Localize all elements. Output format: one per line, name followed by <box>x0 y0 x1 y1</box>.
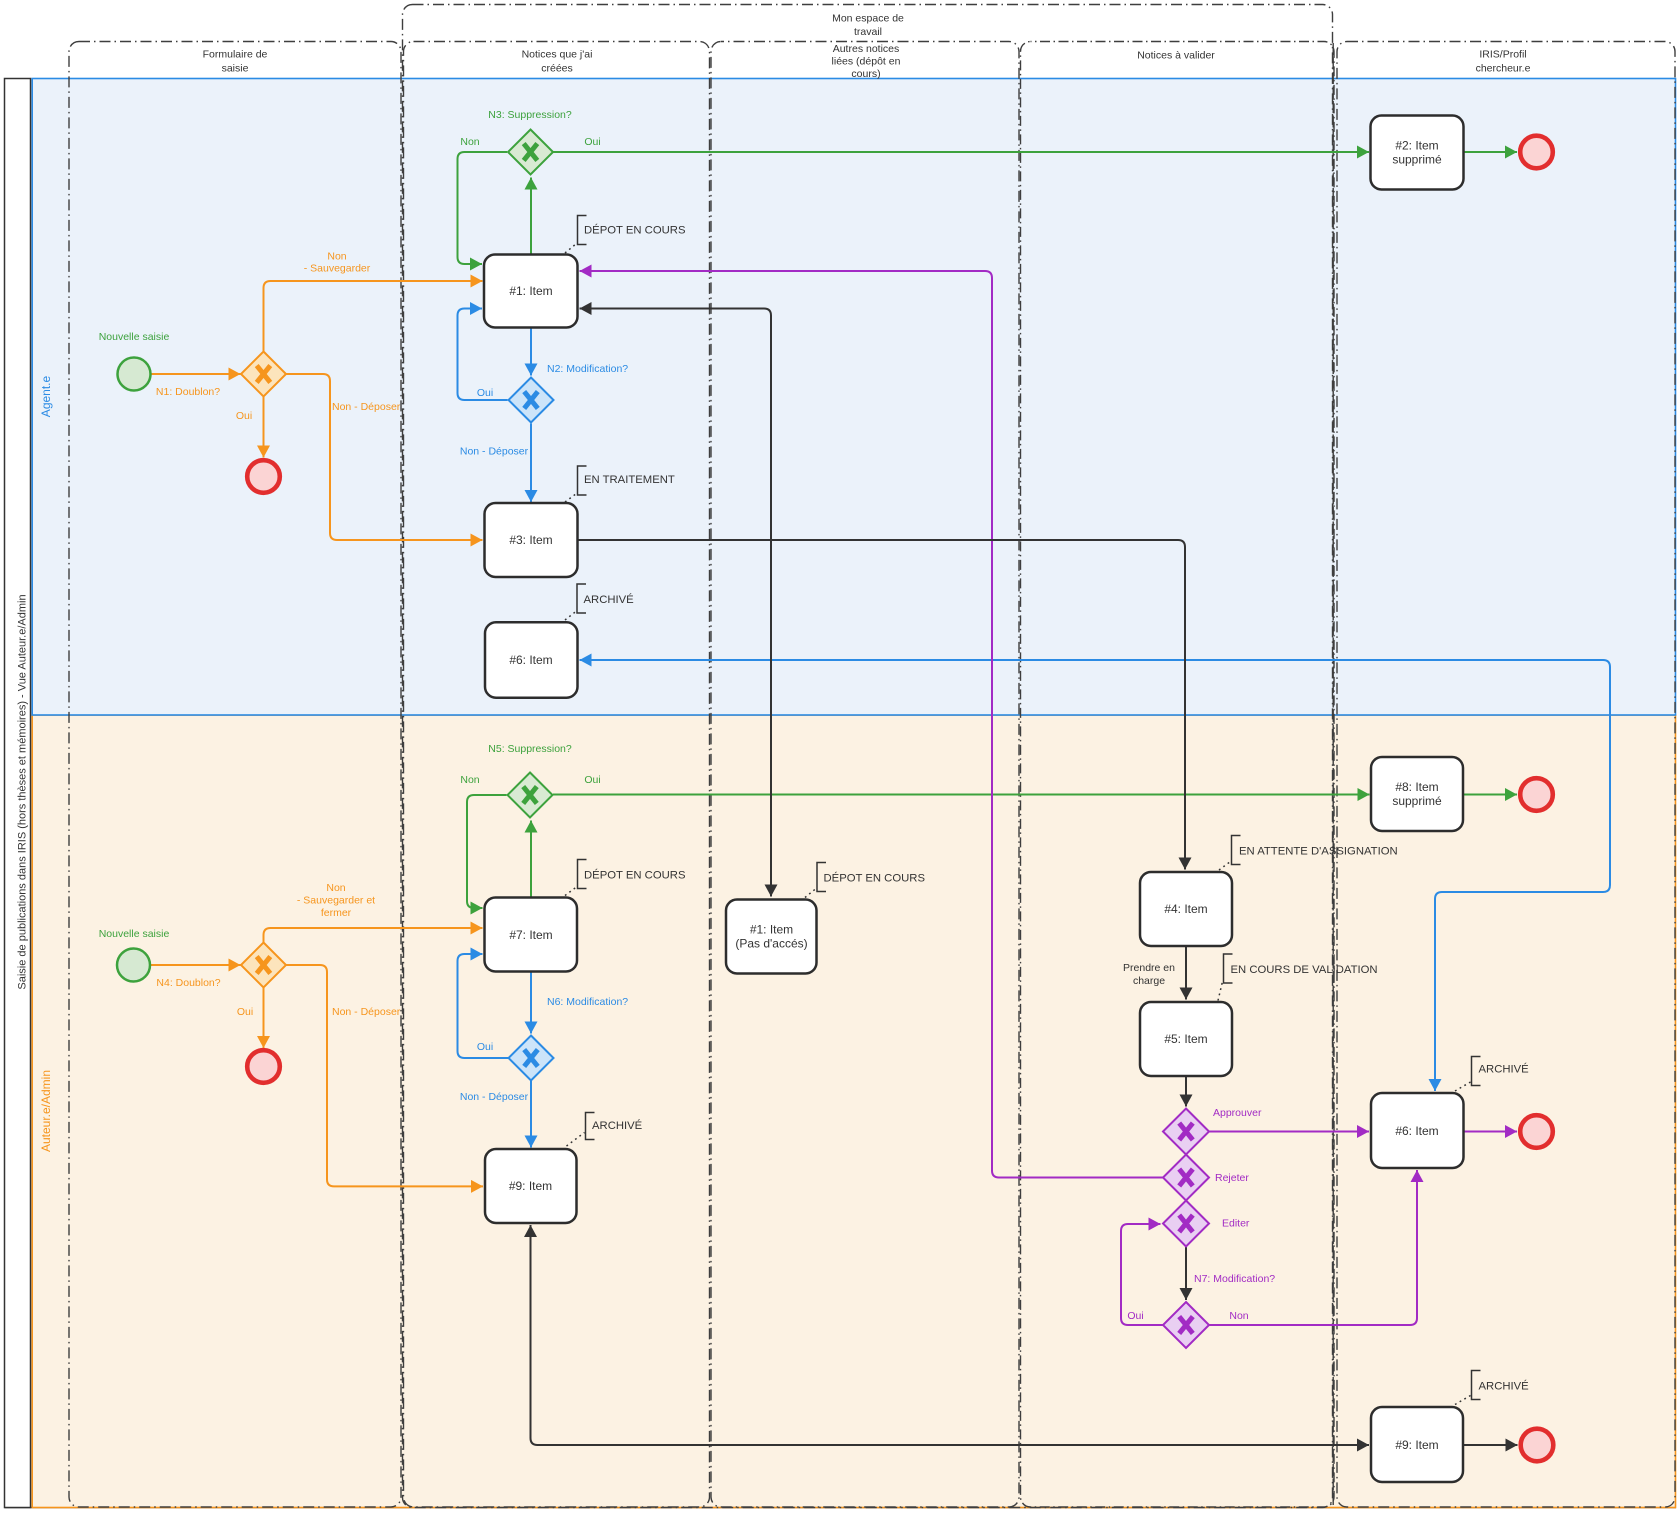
wire purple N7 Oui loop to Editer <box>1121 1224 1163 1325</box>
wire green #7 to N5 <box>530 821 532 897</box>
bracket DEPOT EN COURS Pas d'acces <box>817 863 826 892</box>
wire orange N4 Non-Deposer to #9 <box>287 965 484 1186</box>
svg-text:EN ATTENTE D'ASSIGNATION: EN ATTENTE D'ASSIGNATION <box>1239 846 1398 858</box>
task #9 Item IRIS <box>1371 1407 1463 1482</box>
wire green #8 to end event <box>1464 794 1518 796</box>
bracket ARCHIVE #9 <box>586 1113 595 1140</box>
svg-text:#1: Item: #1: Item <box>509 284 552 298</box>
bracket EN ATTENTE D'ASSIGNATION <box>1232 836 1241 865</box>
wire green #2 to end event <box>1464 151 1517 153</box>
svg-text:fermer: fermer <box>321 907 352 919</box>
wire purple Approuver to #6 IRIS <box>1210 1131 1370 1133</box>
wire orange N1 Oui to end event <box>263 397 265 458</box>
svg-text:#1: Item: #1: Item <box>750 923 793 937</box>
start event Nouvelle saisie (Auteur.e) <box>117 949 150 982</box>
svg-text:Prendre en: Prendre en <box>1123 962 1175 974</box>
svg-text:Notices à valider: Notices à valider <box>1137 50 1215 62</box>
svg-text:Non: Non <box>460 136 479 148</box>
wire blue N2 Non-Deposer to #3 <box>530 424 532 503</box>
svg-text:N7: Modification?: N7: Modification? <box>1194 1273 1275 1285</box>
svg-text:ARCHIVÉ: ARCHIVÉ <box>584 593 635 606</box>
bracket EN COURS DE VALIDATION <box>1224 954 1233 983</box>
svg-text:Approuver: Approuver <box>1213 1107 1262 1119</box>
pool bottom border <box>5 1507 1677 1509</box>
lane Auteur.e/Admin (orange) <box>32 715 1675 1508</box>
svg-text:ARCHIVÉ: ARCHIVÉ <box>1479 1063 1530 1076</box>
wire dotted label link #6 top <box>565 611 577 620</box>
svg-text:IRIS/Profil: IRIS/Profil <box>1479 49 1526 61</box>
wire purple Rejeter to #1 <box>580 271 1163 1178</box>
svg-text:DÉPOT EN COURS: DÉPOT EN COURS <box>584 224 686 237</box>
svg-text:Oui: Oui <box>1127 1310 1143 1322</box>
svg-text:#5: Item: #5: Item <box>1164 1032 1207 1046</box>
svg-text:#6: Item: #6: Item <box>1395 1124 1438 1138</box>
wire green N3 Oui to #2 <box>554 151 1370 153</box>
svg-text:saisie: saisie <box>222 63 249 75</box>
wire blue #7 to N6 <box>530 972 532 1034</box>
wire purple #6 IRIS to end event <box>1464 1131 1517 1133</box>
bracket EN TRAITEMENT <box>578 466 587 495</box>
wire dotted label link #9 <box>567 1133 585 1147</box>
wire blue N6 Non-Deposer to #9 <box>530 1081 532 1148</box>
wire black Editer to N7 <box>1185 1247 1187 1301</box>
wire orange start to N1 <box>151 373 241 375</box>
wire green #1 to N3 <box>530 178 532 254</box>
wire dotted label link #6 IRIS <box>1455 1082 1471 1091</box>
bracket DEPOT EN COURS #7 <box>578 860 587 889</box>
svg-text:#9: Item: #9: Item <box>1395 1438 1438 1452</box>
svg-text:Non - Déposer: Non - Déposer <box>332 1006 401 1018</box>
wire blue #6 IRIS to #6 workspace (double arrow) <box>580 660 1611 1091</box>
svg-text:Mon espace de: Mon espace de <box>832 13 904 25</box>
svg-text:liées (dépôt en: liées (dépôt en <box>832 56 901 68</box>
svg-text:supprimé: supprimé <box>1392 794 1442 808</box>
svg-text:DÉPOT EN COURS: DÉPOT EN COURS <box>584 869 686 882</box>
wire purple N7 Non to #6 IRIS bottom <box>1210 1170 1418 1325</box>
task #8 Item supprime <box>1371 757 1463 831</box>
task #5 Item <box>1140 1002 1232 1076</box>
bracket ARCHIVE #6 top <box>577 584 586 613</box>
gateway N4 Doublon (orange) <box>241 943 286 988</box>
bracket ARCHIVE #9 IRIS <box>1472 1371 1481 1400</box>
wire orange N4 Non-Sauvegarder to #7 <box>264 928 483 943</box>
gateway N6 Modification (blue) <box>509 1036 554 1081</box>
svg-text:N4: Doublon?: N4: Doublon? <box>156 977 220 989</box>
svg-text:#4: Item: #4: Item <box>1164 902 1207 916</box>
svg-text:Autres notices: Autres notices <box>833 43 900 55</box>
gateway N5 Suppression (green) <box>508 773 553 818</box>
svg-text:Auteur.e/Admin: Auteur.e/Admin <box>39 1070 53 1152</box>
task #6 Item workspace <box>485 622 578 697</box>
svg-text:ARCHIVÉ: ARCHIVÉ <box>1479 1380 1530 1393</box>
svg-text:Oui: Oui <box>236 410 252 422</box>
svg-text:(Pas d'accés): (Pas d'accés) <box>735 937 807 951</box>
pool label strip <box>5 79 31 1508</box>
svg-text:Nouvelle saisie: Nouvelle saisie <box>99 928 170 940</box>
frame IRIS/Profil chercheur.e <box>1337 42 1675 1508</box>
svg-text:chercheur.e: chercheur.e <box>1476 63 1531 75</box>
wire orange N4 Oui to end event <box>263 988 265 1048</box>
wire dotted label link #4 <box>1219 862 1231 871</box>
task #3 Item <box>485 503 578 577</box>
svg-text:supprimé: supprimé <box>1392 153 1442 167</box>
wire orange start2 to N4 <box>151 964 241 966</box>
svg-text:EN COURS DE VALIDATION: EN COURS DE VALIDATION <box>1231 964 1378 976</box>
svg-text:- Sauvegarder et: - Sauvegarder et <box>297 895 375 907</box>
svg-text:#9: Item: #9: Item <box>509 1179 552 1193</box>
task #4 Item <box>1140 872 1232 946</box>
svg-text:Oui: Oui <box>477 387 493 399</box>
svg-text:Non: Non <box>460 774 479 786</box>
wire black #4 to #5 <box>1185 947 1187 1000</box>
task #1 Item Pas d'acces <box>726 900 817 974</box>
task #7 Item <box>485 898 578 972</box>
svg-text:Non: Non <box>327 251 346 263</box>
svg-text:Non - Déposer: Non - Déposer <box>332 401 401 413</box>
gateway Rejeter (purple) <box>1163 1155 1209 1201</box>
wire blue N6 Oui loop to #7 <box>458 954 509 1058</box>
svg-text:DÉPOT EN COURS: DÉPOT EN COURS <box>824 872 926 885</box>
svg-text:N3: Suppression?: N3: Suppression? <box>488 109 572 121</box>
lane Agent.e (blue) <box>32 79 1675 716</box>
wire orange N1 Non-Sauvegarder to #1 <box>264 281 483 351</box>
end event after #9 IRIS <box>1521 1429 1554 1462</box>
svg-text:Oui: Oui <box>584 136 600 148</box>
gateway Editer (purple) <box>1163 1201 1209 1247</box>
start event Nouvelle saisie (Agent.e) <box>118 358 151 391</box>
svg-text:créées: créées <box>541 63 573 75</box>
end event after N1 Oui <box>247 460 280 493</box>
wire dotted label link #5 <box>1218 982 1223 1001</box>
svg-text:ARCHIVÉ: ARCHIVÉ <box>592 1119 643 1132</box>
svg-text:N6: Modification?: N6: Modification? <box>547 996 628 1008</box>
svg-text:Notices que j'ai: Notices que j'ai <box>522 49 593 61</box>
svg-text:Rejeter: Rejeter <box>1215 1172 1249 1184</box>
task #6 Item IRIS <box>1371 1093 1464 1168</box>
frame Notices que j'ai créées <box>404 42 710 1508</box>
end event after #6 IRIS <box>1520 1115 1553 1148</box>
svg-text:cours): cours) <box>851 68 880 80</box>
frame Notices à valider <box>1021 42 1335 1508</box>
wire black #1 to #1 Pas d'acces (double arrow) <box>580 309 772 897</box>
svg-text:#6: Item: #6: Item <box>509 653 552 667</box>
svg-text:charge: charge <box>1133 975 1165 987</box>
wire green N5 Non loop to #7 <box>467 795 507 908</box>
svg-text:Oui: Oui <box>237 1006 253 1018</box>
wire blue N2 Oui loop to #1 <box>458 309 508 401</box>
svg-text:- Sauvegarder: - Sauvegarder <box>304 263 371 275</box>
wire dotted label link #1 <box>565 244 577 254</box>
svg-text:N5: Suppression?: N5: Suppression? <box>488 743 572 755</box>
wire orange N1 Non-Deposer to #3 <box>287 374 483 540</box>
task #9 Item workspace <box>485 1149 577 1223</box>
end event after N4 Oui <box>247 1050 280 1083</box>
end event after #8 <box>1520 778 1553 811</box>
svg-text:Nouvelle saisie: Nouvelle saisie <box>99 331 170 343</box>
svg-text:N1: Doublon?: N1: Doublon? <box>156 386 220 398</box>
svg-text:#3: Item: #3: Item <box>509 533 552 547</box>
wire green N5 Oui to #8 <box>553 794 1370 796</box>
wire black #9 to #9 IRIS (double arrow) <box>531 1225 1370 1445</box>
svg-text:#2: Item: #2: Item <box>1395 139 1438 153</box>
svg-text:Non: Non <box>1229 1310 1248 1322</box>
task #2 Item supprime <box>1371 116 1464 190</box>
gateway Approuver (purple) <box>1163 1109 1209 1155</box>
wire black #9 IRIS to end event <box>1464 1444 1518 1446</box>
svg-text:#7: Item: #7: Item <box>509 928 552 942</box>
svg-text:Formulaire de: Formulaire de <box>203 49 268 61</box>
frame Mon espace de travail <box>403 5 1333 1508</box>
wire dotted label link #3 <box>565 494 577 503</box>
svg-text:Non: Non <box>326 882 345 894</box>
bracket DEPOT EN COURS #1 <box>578 216 587 245</box>
wire black #3 to #4 <box>578 540 1186 870</box>
svg-text:Agent.e: Agent.e <box>39 375 53 417</box>
wire dotted label link #9 IRIS <box>1455 1396 1471 1405</box>
frame Formulaire de saisie <box>69 42 401 1508</box>
wire dotted label link Pas d'acces <box>805 889 816 898</box>
svg-text:Oui: Oui <box>477 1041 493 1053</box>
svg-text:Oui: Oui <box>584 774 600 786</box>
svg-text:EN TRAITEMENT: EN TRAITEMENT <box>584 474 675 486</box>
end event after #2 <box>1520 136 1553 169</box>
svg-text:Non - Déposer: Non - Déposer <box>460 446 529 458</box>
svg-text:travail: travail <box>854 26 882 38</box>
svg-text:Editer: Editer <box>1222 1218 1250 1230</box>
svg-text:N2: Modification?: N2: Modification? <box>547 363 628 375</box>
wire black #5 to Approuver <box>1185 1077 1187 1107</box>
svg-text:Non - Déposer: Non - Déposer <box>460 1091 529 1103</box>
gateway N3 Suppression (green) <box>508 130 553 175</box>
svg-text:#8: Item: #8: Item <box>1395 780 1438 794</box>
frame Autres notices liées <box>711 42 1019 1508</box>
frame border overlay Notices a valider right edge <box>1332 43 1334 1505</box>
wire green N3 Non loop to #1 <box>458 152 508 264</box>
gateway N1 Doublon (orange) <box>241 352 286 397</box>
wire blue #1 to N2 <box>530 328 532 376</box>
task #1 Item <box>484 255 578 328</box>
gateway N2 Modification (blue) <box>509 378 554 423</box>
wire dotted label link #7 <box>565 887 577 896</box>
svg-text:Saisie de publications dans IR: Saisie de publications dans IRIS (hors t… <box>17 594 29 989</box>
bracket ARCHIVE #6 IRIS <box>1472 1057 1481 1086</box>
gateway N7 Modification (purple) <box>1163 1302 1209 1348</box>
